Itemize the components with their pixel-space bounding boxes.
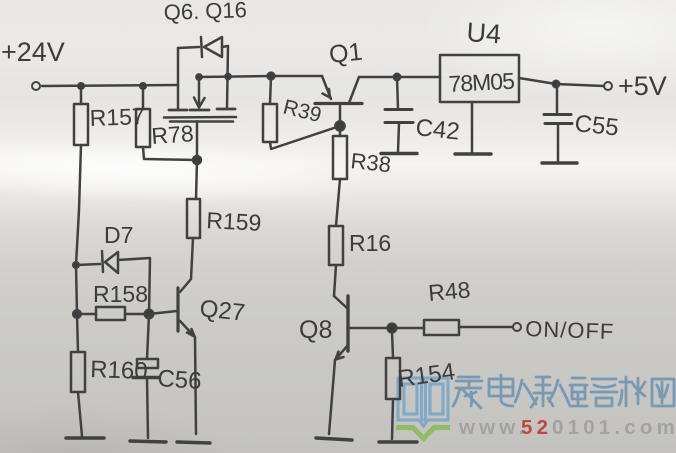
wire U4 ground lead xyxy=(471,102,474,152)
svg-text:Q8: Q8 xyxy=(299,316,332,344)
mosfet gate bar xyxy=(164,116,236,119)
watermark chinese text 家电维修资料网 xyxy=(453,375,674,408)
node mosfet drain xyxy=(196,74,201,79)
svg-text:ON/OFF: ON/OFF xyxy=(525,316,615,344)
wire Q27 emitter down xyxy=(195,337,196,434)
svg-text:R158: R158 xyxy=(93,281,148,307)
watermark book ribbon xyxy=(396,427,450,439)
svg-text:C55: C55 xyxy=(573,110,620,141)
wire R157 lead xyxy=(80,86,83,104)
svg-text:R16: R16 xyxy=(349,230,391,256)
resistor R159 xyxy=(187,199,200,238)
resistor R154 xyxy=(386,358,400,399)
svg-text:+24V: +24V xyxy=(1,37,65,67)
svg-text:C56: C56 xyxy=(157,365,203,395)
svg-text:C42: C42 xyxy=(414,114,461,145)
wire to R48 xyxy=(396,327,424,330)
diode Q6 triangle xyxy=(204,37,222,57)
node R158 left xyxy=(73,310,81,318)
transistor Q1 collector xyxy=(349,77,359,103)
svg-text:R38: R38 xyxy=(349,148,392,177)
mosfet source foot xyxy=(169,109,187,112)
wire Q8 base xyxy=(350,327,390,330)
ground C55 xyxy=(542,161,577,164)
watermark book icon xyxy=(398,378,448,426)
wire mosfet left vertical xyxy=(177,48,180,109)
svg-text:Q27: Q27 xyxy=(198,295,246,327)
node C55 top xyxy=(553,81,559,87)
diode D7 cathode bar xyxy=(102,251,103,272)
terminal +5V xyxy=(604,82,612,90)
wire gate node to R159 xyxy=(196,160,197,199)
svg-text:R159: R159 xyxy=(206,207,262,236)
resistor R160 xyxy=(71,352,85,392)
resistor R38 xyxy=(339,126,342,136)
diode Q6 cathode bar xyxy=(201,37,202,57)
node diode right xyxy=(225,74,230,79)
wire R154 to ground xyxy=(392,399,393,439)
wire R159 to Q27 collector xyxy=(191,238,193,279)
diode Q6 loop left wire xyxy=(178,47,199,48)
svg-text:R78: R78 xyxy=(151,120,195,149)
wire R158 left lead xyxy=(77,313,96,316)
svg-text:52: 52 xyxy=(521,416,552,439)
wire R39 bottom diagonal to Q1 base node xyxy=(270,127,337,149)
wire top rail middle xyxy=(199,76,322,77)
mosfet body foot xyxy=(190,109,209,112)
wire R48 to terminal xyxy=(459,326,512,329)
ground Q27 xyxy=(177,442,210,443)
resistor R39 xyxy=(263,104,277,142)
transistor Q1 emitter xyxy=(322,76,331,99)
svg-text:Q6. Q16: Q6. Q16 xyxy=(163,0,247,25)
svg-text:0101.com: 0101.com xyxy=(552,416,676,439)
wire junction to C56 xyxy=(147,314,149,359)
wire U4 out rail xyxy=(519,78,604,86)
wire C42 lead xyxy=(397,77,398,109)
ground Q8 xyxy=(316,438,352,440)
wire junction to Q27 base xyxy=(149,311,177,314)
ground R160 xyxy=(66,436,104,439)
ground C42 xyxy=(381,152,417,155)
resistor R16 xyxy=(329,226,343,265)
terminal +24V xyxy=(32,82,40,90)
wire R39 lead xyxy=(270,76,271,104)
terminal ON/OFF xyxy=(513,323,521,331)
wire Q1 base lead xyxy=(339,104,342,124)
wire R158 right lead xyxy=(125,313,148,316)
diode Q6 loop right wire xyxy=(222,46,228,47)
node D7 left xyxy=(73,262,79,268)
node R157 top xyxy=(78,83,84,89)
ground C56 xyxy=(130,441,166,442)
wire mosfet right vertical xyxy=(227,46,228,108)
wire left column xyxy=(76,145,81,352)
wire top rail left xyxy=(42,85,178,86)
wire Q8 emitter down xyxy=(329,360,335,434)
wire R78 bottom to gate node xyxy=(143,147,197,160)
node R158 right junction xyxy=(145,310,153,318)
svg-text:R39: R39 xyxy=(281,96,324,128)
diode D7 triangle xyxy=(105,252,118,273)
wire C55 lead xyxy=(556,84,559,114)
svg-text:+5V: +5V xyxy=(618,71,667,101)
wire C56 to ground xyxy=(147,378,148,438)
svg-text:www.: www. xyxy=(458,416,529,439)
node R78 top xyxy=(140,83,146,89)
resistor R78 xyxy=(136,109,150,147)
transistor Q8 xyxy=(334,296,347,308)
ground R154 xyxy=(379,440,417,443)
transistor Q27 xyxy=(180,279,191,292)
wire top rail right xyxy=(359,76,440,79)
svg-text:U4: U4 xyxy=(466,17,503,49)
node Q1 base junction xyxy=(335,121,344,130)
mosfet drain foot xyxy=(217,108,235,111)
svg-text:78M05: 78M05 xyxy=(448,68,515,97)
capacitor C42 xyxy=(385,108,412,111)
wire R78 lead xyxy=(142,86,145,109)
ground U4 xyxy=(455,152,491,155)
node gate junction xyxy=(193,156,201,164)
node C42 top xyxy=(394,74,400,80)
wire D7 to corner xyxy=(118,258,150,314)
svg-text:D7: D7 xyxy=(104,222,133,248)
watermark url www.520101.com xyxy=(458,416,676,439)
wire R160 to ground xyxy=(78,392,82,436)
wire R38 to R16 xyxy=(336,179,340,226)
wire C55 to ground xyxy=(557,124,560,161)
resistor R158 xyxy=(96,307,125,320)
svg-text:R157: R157 xyxy=(89,103,145,131)
wire gate lead xyxy=(196,122,199,161)
wire R16 to Q8 collector xyxy=(334,265,336,296)
transistor Q1 base bar xyxy=(315,102,362,105)
capacitor C55 xyxy=(544,113,571,116)
diode D7 anode-side wire xyxy=(76,264,100,265)
svg-text:Q1: Q1 xyxy=(328,38,364,69)
resistor R157 xyxy=(74,104,88,145)
wire R160 lead xyxy=(77,351,80,354)
resistor R48 xyxy=(424,320,459,335)
regulator U4 box xyxy=(440,55,519,102)
svg-text:R160: R160 xyxy=(90,356,148,385)
node Q8 base junction xyxy=(388,324,397,333)
wire R154 lead xyxy=(392,332,393,358)
mosfet Q6/Q16 middle stub with arrow xyxy=(198,77,201,105)
capacitor C56 xyxy=(137,359,158,368)
wire C42 to ground xyxy=(398,123,399,152)
svg-text:R48: R48 xyxy=(427,276,471,306)
node R39 top xyxy=(268,73,275,80)
